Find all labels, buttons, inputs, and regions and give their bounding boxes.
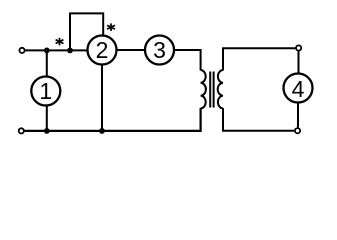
wire top-left horizontal [25,49,88,51]
wire secondary top to right terminal [223,48,295,70]
junction node at bypass loop start [67,48,73,54]
meter 2 circle [88,36,117,65]
wire voltage-coil branch of meter 1 (bottom) [46,106,48,131]
svg-text:2: 2 [96,37,109,63]
meter 3 circle [145,36,174,65]
polarity asterisk at current coil input [56,38,64,46]
meter 4 circle [284,74,313,103]
wire bottom rail to transformer primary bottom [24,108,201,131]
junction node at meter 1 bottom branch [44,128,50,134]
wire voltage-coil branch of meter 1 (top) [46,50,48,76]
transformer primary winding [201,70,206,109]
transformer core line left [209,72,211,108]
wire right terminal to meter 4 top [298,51,300,73]
junction node at meter 1 top branch [44,48,50,54]
wire between meter 2 and meter 3 [117,49,145,51]
svg-text:4: 4 [292,76,305,102]
wire meter 2 bottom lead to bottom rail [101,65,103,131]
wire current-coil bypass loop over meter 2 [70,13,103,50]
terminal top-left [19,48,24,53]
polarity asterisk at voltage coil terminal of meter 2 [107,23,115,31]
junction node at meter 2 bottom lead [99,128,105,134]
wire from meter 3 to transformer primary top [175,50,201,71]
svg-text:3: 3 [153,37,166,63]
wire secondary bottom to bottom-right terminal [223,108,294,131]
terminal bottom-right [295,128,300,133]
wire meter 4 bottom to bottom-right terminal [297,103,299,127]
terminal top-right [296,45,301,50]
svg-text:1: 1 [39,78,52,104]
transformer core line right [213,72,215,108]
meter 1 circle [31,77,60,106]
terminal bottom-left [19,128,24,133]
transformer secondary winding [218,70,223,109]
